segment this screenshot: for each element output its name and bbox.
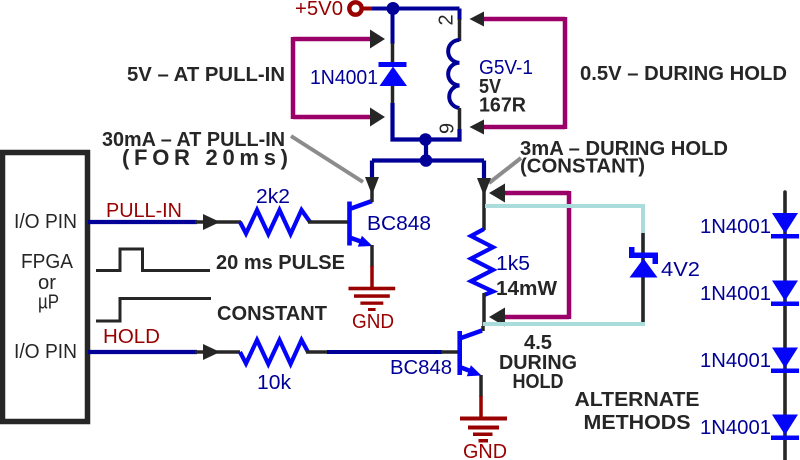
svg-text:CONSTANT: CONSTANT [217, 303, 327, 325]
svg-text:HOLD: HOLD [513, 371, 564, 393]
ground GND (Q1) [349, 287, 396, 311]
svg-text:1N4001: 1N4001 [700, 350, 771, 372]
svg-text:I/O PIN: I/O PIN [14, 211, 77, 233]
wire relay right branch upper [458, 9, 462, 21]
pointer line (3mA) [489, 158, 521, 183]
svg-text:+5V0: +5V0 [295, 0, 343, 20]
wire diode bottom lead [391, 85, 395, 104]
svg-text:GND: GND [352, 311, 394, 333]
wire diode chain [783, 192, 787, 460]
resistor R1 2k2 [240, 210, 310, 234]
svg-text:1N4001: 1N4001 [700, 417, 771, 439]
pointer line (30mA) [291, 136, 363, 182]
wire 10k right lead [306, 350, 328, 354]
wire HOLD net to Q2 [327, 350, 442, 354]
diode D4 1N4001 [771, 281, 799, 307]
ground GND (Q2) [460, 417, 507, 443]
terminal +5V0 [349, 2, 361, 14]
wire diode top lead [391, 43, 395, 63]
wire 1k5 bottom to Q2 collector [482, 293, 486, 326]
svg-text:BC848: BC848 [367, 213, 431, 235]
resistor R3 1k5 [471, 229, 493, 295]
wire Q2 base lead [441, 350, 458, 354]
svg-text:ALTERNATE: ALTERNATE [575, 389, 700, 411]
wire Q1 collector drop [370, 161, 374, 178]
svg-text:1N4001: 1N4001 [310, 67, 378, 89]
svg-text:1N4001: 1N4001 [700, 283, 771, 305]
wire coil pin 2 lead [458, 19, 462, 41]
node junction dot relay bottom [419, 133, 432, 146]
svg-text:4.5: 4.5 [524, 332, 552, 354]
svg-text:167R: 167R [479, 95, 527, 117]
wire to Q1 base [308, 220, 348, 224]
transistor Q2 BC848 [457, 331, 482, 377]
zener diode D2 4V2 [629, 247, 658, 278]
wire relay right branch lower [457, 129, 461, 142]
svg-text:µP: µP [38, 292, 59, 314]
svg-text:5V – AT PULL-IN: 5V – AT PULL-IN [127, 64, 285, 86]
wire Q2 ground lead (dark red) [479, 396, 483, 418]
measure bracket mid (4.5 during hold) [489, 184, 569, 327]
svg-text:PULL-IN: PULL-IN [106, 200, 182, 222]
wire terminal stub (dark red) [362, 7, 373, 11]
svg-text:HOLD: HOLD [103, 326, 160, 348]
svg-text:10k: 10k [257, 372, 292, 394]
wire 1k5 top lead [482, 188, 486, 230]
wire relay bottom to rail [424, 136, 428, 161]
svg-text:9: 9 [437, 123, 459, 134]
wire PULL-IN net [88, 220, 197, 224]
svg-text:14mW: 14mW [496, 278, 557, 300]
wire Q1 collector lead [370, 188, 374, 202]
svg-text:1k5: 1k5 [496, 253, 530, 275]
svg-text:(CONSTANT): (CONSTANT) [520, 156, 645, 178]
node junction dot on rail [420, 154, 433, 167]
wire relay left branch upper [391, 9, 395, 45]
measure bracket right (0.5V during hold) [470, 12, 566, 135]
wire HOLD net [88, 350, 197, 354]
svg-text:METHODS: METHODS [584, 412, 691, 434]
wire Q1 emitter to ground [370, 245, 374, 267]
wire coil pin 9 lead [458, 108, 462, 130]
arrow into 1k5 branch [477, 178, 491, 196]
svg-text:20 ms PULSE: 20 ms PULSE [216, 252, 345, 274]
svg-text:1N4001: 1N4001 [700, 216, 771, 238]
svg-text:BC848: BC848 [390, 357, 452, 379]
wire 10k left lead [195, 350, 240, 354]
diode D6 1N4001 [771, 415, 799, 441]
measure bracket left (5V at pull-in) [293, 30, 385, 127]
wire Q2 collector lead [481, 326, 485, 331]
node junction dot top [387, 2, 400, 15]
step waveform constant [96, 299, 211, 322]
wire Q1 ground lead (dark red) [370, 266, 374, 288]
svg-text:4V2: 4V2 [661, 259, 700, 281]
wire relay bottom edge [391, 137, 462, 141]
wire relay left branch lower [390, 103, 394, 142]
wire alternate loop (cyan) [483, 206, 643, 324]
wire 2k2 left lead [195, 220, 241, 224]
arrow on HOLD wire [203, 344, 220, 360]
svg-text:2: 2 [436, 14, 458, 25]
wire Q2 emitter to ground [479, 375, 483, 397]
inductor coil G5V-1 [448, 40, 459, 108]
diode D5 1N4001 [771, 348, 799, 374]
arrow into Q1 collector [365, 177, 379, 195]
FPGA box [3, 153, 88, 422]
svg-text:I/O PIN: I/O PIN [14, 341, 77, 363]
wire top rail [372, 7, 460, 11]
arrow on PULL-IN wire [203, 214, 220, 230]
wire main rail y158 [372, 158, 484, 162]
wire 1k5 branch drop [482, 161, 486, 179]
svg-text:FPGA: FPGA [21, 251, 74, 273]
diode D3 1N4001 [771, 213, 799, 239]
diode D1 1N4001 (relay clamp) [379, 62, 408, 86]
svg-text:2k2: 2k2 [256, 186, 290, 208]
svg-text:GND: GND [463, 441, 507, 460]
svg-text:0.5V – DURING HOLD: 0.5V – DURING HOLD [580, 63, 787, 85]
resistor R2 10k [240, 340, 308, 364]
wire zener branch black [641, 233, 645, 322]
transistor Q1 BC848 [347, 201, 372, 247]
pulse waveform 20ms [96, 249, 210, 271]
svg-text:(FOR 20ms): (FOR 20ms) [122, 145, 288, 170]
